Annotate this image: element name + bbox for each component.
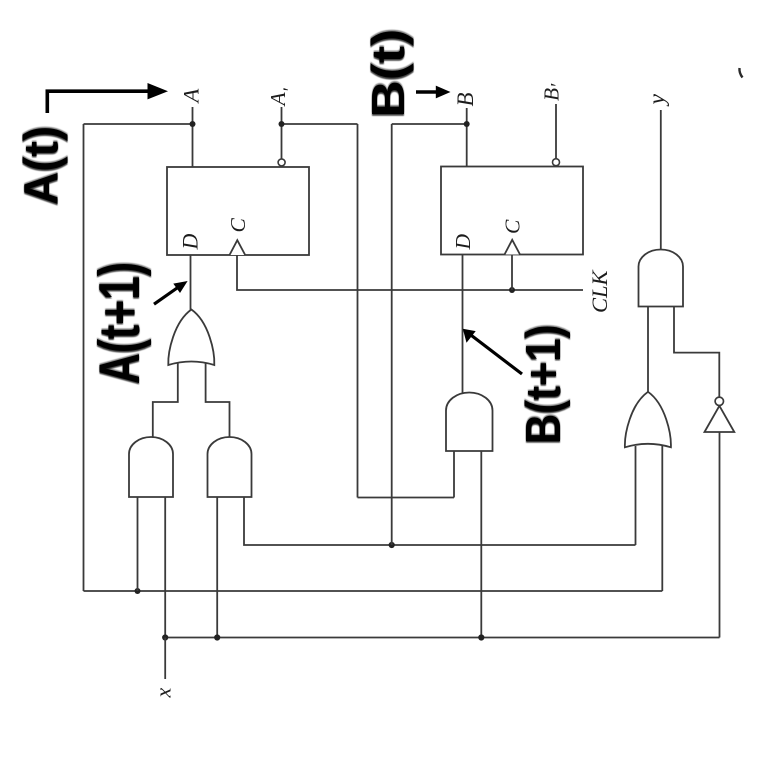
node B bus junction — [389, 542, 395, 548]
wire bus A horizontal y591 — [84, 590, 663, 592]
wire B-AND right input (x) — [480, 451, 482, 638]
svg-text:C: C — [226, 218, 250, 233]
svg-text:CLK: CLK — [587, 269, 612, 313]
annotation B(t) arrow — [416, 90, 437, 94]
wire y-OR right input riser — [661, 446, 663, 591]
wire D input B — [462, 255, 464, 401]
and-gate y — [639, 250, 684, 307]
wire inverter input riser — [719, 432, 721, 638]
node x junction 1 — [162, 634, 168, 640]
svg-text:A(t): A(t) — [13, 126, 67, 205]
inverter NOT gate — [705, 406, 735, 432]
svg-text:B(t): B(t) — [363, 29, 414, 118]
wire D input A — [190, 255, 192, 311]
wire A output vertical — [192, 107, 194, 167]
node A' bubble — [278, 159, 285, 166]
svg-text:y: y — [644, 94, 670, 107]
wire B' output vertical — [555, 104, 557, 159]
or-gate y — [625, 392, 671, 448]
svg-text:A(t+1): A(t+1) — [87, 262, 152, 384]
node A junction — [190, 121, 196, 127]
wire B feedback vertical — [391, 124, 393, 545]
wire A feedback horizontal — [84, 123, 193, 125]
node B' bubble — [553, 159, 560, 166]
node A' junction — [279, 121, 285, 127]
wire OR-A right input — [206, 363, 230, 438]
wire y-OR left input riser — [635, 446, 637, 545]
svg-text:C: C — [501, 219, 525, 234]
wire A' to B-AND horizontal — [358, 497, 455, 499]
wire AND2 right input (B) — [244, 497, 636, 545]
svg-text:B: B — [453, 92, 478, 106]
and-gate A1 — [129, 437, 173, 497]
node inverter bubble — [715, 397, 723, 405]
wire B output vertical — [466, 108, 468, 167]
wire C input A — [237, 255, 583, 290]
wire AND1 left input — [137, 497, 139, 591]
svg-text:B′: B′ — [540, 83, 569, 101]
and-gate B(t+1) — [446, 393, 493, 452]
wire y-OR output — [647, 306, 649, 393]
clock triangle A — [230, 240, 246, 255]
wire B-AND left input riser — [453, 451, 455, 498]
annotation B(t) text — [363, 27, 414, 119]
svg-text:D: D — [178, 234, 203, 251]
annotation A(t) text — [13, 124, 67, 206]
clock triangle B — [505, 240, 521, 255]
wire AND2 left input (x) — [216, 497, 218, 638]
and-gate A2 — [208, 437, 252, 497]
wire B feedback horizontal — [392, 123, 467, 125]
wire A' long vertical — [357, 124, 359, 498]
node x junction 3 — [478, 634, 484, 640]
svg-text:B(t+1): B(t+1) — [516, 324, 571, 444]
svg-text:D: D — [451, 234, 475, 251]
annotation A(t+1) arrow — [154, 287, 179, 304]
wire A' output vertical — [281, 107, 283, 159]
annotation B(t+1) arrow — [472, 336, 523, 375]
wire A feedback left vertical — [83, 124, 85, 591]
wire C input B — [511, 255, 513, 291]
flip-flop A — [167, 167, 309, 255]
wire inverter output — [674, 306, 719, 397]
svg-text:A′: A′ — [266, 87, 301, 107]
flip-flop B — [441, 167, 583, 255]
or-gate A(t+1) — [168, 310, 214, 366]
annotation A(t) arrow — [47, 91, 150, 113]
node B junction — [464, 121, 470, 127]
node CLK junction — [509, 287, 515, 293]
annotation B(t+1) text — [516, 323, 571, 445]
wire A' horizontal — [282, 123, 358, 125]
wire AND1 right input (x) — [164, 497, 166, 638]
annotation A(t+1) text — [87, 261, 152, 386]
wire OR-A left input — [153, 363, 178, 438]
node A bus junction — [135, 588, 141, 594]
wire y output — [660, 110, 662, 250]
node x junction 2 — [214, 634, 220, 640]
wire x input stub — [164, 638, 166, 680]
wire bus x horizontal y636 — [165, 637, 719, 639]
stray tick mark top right — [739, 68, 742, 78]
svg-text:x: x — [151, 688, 176, 699]
svg-text:A: A — [179, 89, 204, 105]
